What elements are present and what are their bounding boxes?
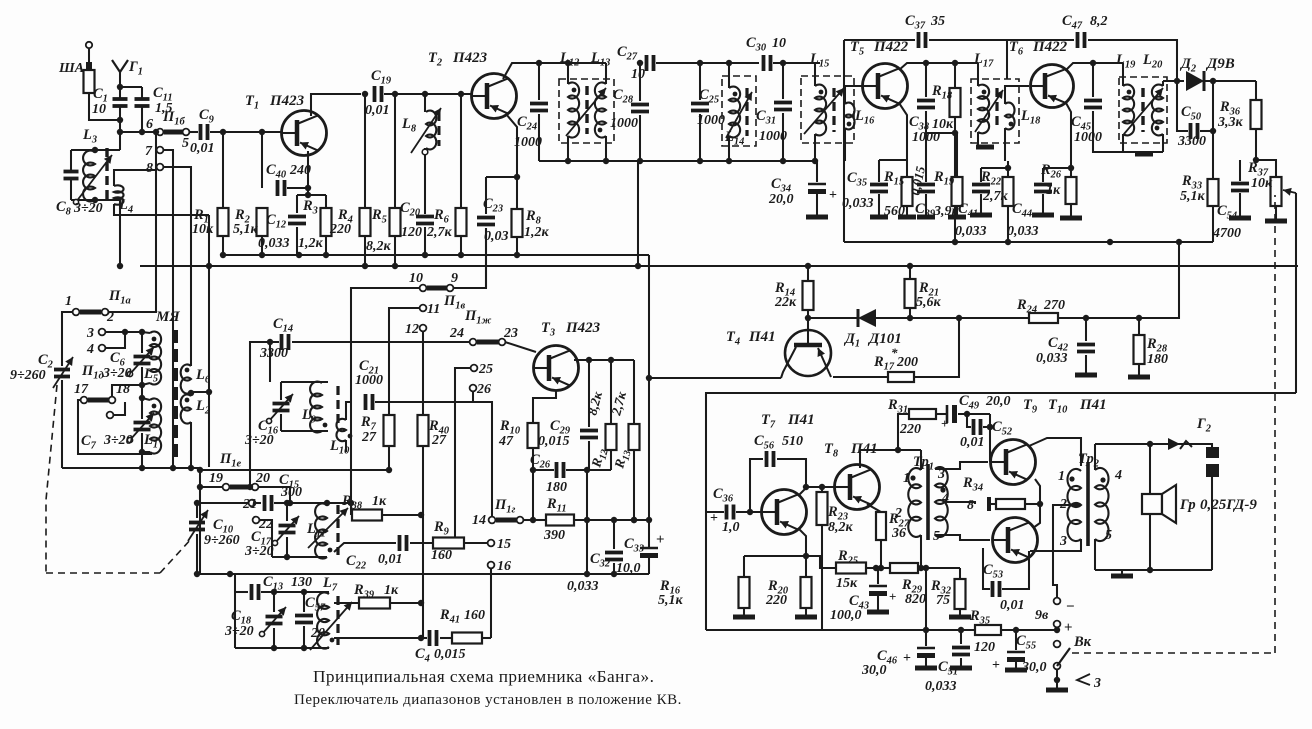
switch П1ж contacts 24-23 [470, 339, 506, 346]
switch П1а contacts 1-2 [73, 309, 109, 316]
svg-text:120: 120 [974, 640, 995, 655]
svg-text:R19: R19 [933, 169, 955, 188]
svg-text:26: 26 [476, 382, 491, 397]
antenna Г1 [112, 60, 128, 90]
resistor R8 [512, 209, 523, 258]
svg-text:−: − [1066, 599, 1075, 615]
label 23 [503, 326, 518, 341]
label R4 220 [329, 207, 353, 237]
label C23 [483, 196, 503, 215]
wire T7 emitter [798, 528, 806, 556]
svg-text:14: 14 [472, 513, 486, 528]
svg-text:L17: L17 [973, 51, 994, 70]
label R31 220 [887, 397, 921, 437]
capacitor C42 [1075, 318, 1097, 375]
label C56 510 [754, 433, 803, 452]
svg-text:C57: C57 [305, 595, 326, 614]
label 3÷20 (C7) [103, 433, 133, 448]
label L14 [724, 129, 744, 148]
wire T8 emitter [867, 504, 881, 512]
svg-text:10: 10 [92, 102, 106, 117]
caption line 2 [294, 692, 682, 708]
capacitor C49 [936, 405, 990, 423]
label C12 [266, 212, 286, 231]
svg-text:R35: R35 [969, 608, 990, 627]
svg-text:510: 510 [782, 434, 803, 449]
coil L17 [976, 63, 994, 147]
resistor R22 [1003, 161, 1014, 245]
label C32 0,033 [567, 551, 610, 594]
svg-text:1: 1 [1058, 469, 1065, 484]
label L10 [329, 438, 350, 457]
capacitor C1 [113, 87, 128, 150]
svg-text:L14: L14 [724, 129, 744, 148]
label 18 [116, 382, 130, 397]
svg-text:200: 200 [896, 355, 918, 370]
transformer Тр1 core [926, 464, 930, 540]
label ША [58, 61, 84, 76]
svg-text:1,2к: 1,2к [298, 236, 324, 251]
svg-text:L13: L13 [590, 50, 610, 69]
label C50 3300 [1177, 104, 1206, 149]
wire 20 to C14 [247, 484, 293, 506]
label C49 20,0 [941, 393, 1011, 431]
svg-text:Г1: Г1 [128, 59, 143, 78]
label L4 [118, 197, 133, 216]
contact 21 [197, 497, 257, 512]
label C16 [258, 418, 279, 437]
coil L5 [142, 331, 161, 385]
svg-text:C41: C41 [958, 201, 978, 220]
svg-text:5,1к: 5,1к [658, 593, 684, 608]
svg-text:Тр1: Тр1 [913, 454, 934, 473]
svg-text:C52: C52 [992, 419, 1012, 438]
wire T1 emitter [297, 151, 326, 198]
label R38 1к [341, 493, 387, 512]
transistor T3 [534, 346, 579, 391]
svg-text:R3: R3 [302, 198, 318, 217]
svg-text:П41: П41 [748, 329, 776, 345]
label R15 560 [883, 169, 905, 219]
label C42 0,033 [1036, 335, 1068, 366]
svg-text:П1д: П1д [81, 363, 104, 382]
label C52 0,01 [960, 419, 1012, 450]
svg-text:+: + [656, 532, 665, 548]
label R27 36 [888, 511, 910, 541]
svg-text:22к: 22к [774, 295, 797, 310]
capacitor C54 [1229, 160, 1251, 218]
label 14 [472, 513, 486, 528]
switch П1в contacts 10-9 [420, 285, 454, 292]
core L7 [310, 596, 352, 650]
svg-text:160: 160 [431, 548, 452, 563]
svg-text:Т6: Т6 [1009, 39, 1024, 58]
svg-text:0,033: 0,033 [258, 236, 290, 251]
label C43 100,0 [830, 589, 896, 623]
svg-text:1000: 1000 [355, 373, 383, 388]
coil L4 [114, 170, 209, 215]
svg-text:8,2: 8,2 [1090, 14, 1108, 29]
svg-text:9: 9 [451, 271, 458, 286]
svg-text:L2: L2 [195, 398, 210, 417]
svg-text:R13: R13 [611, 448, 634, 472]
label П1б [162, 109, 186, 128]
label C34 20,0 [768, 176, 837, 207]
wire 10 to L11 [348, 288, 420, 515]
svg-text:3: 3 [1093, 676, 1101, 691]
label R17 200 [873, 345, 918, 373]
svg-text:180: 180 [1147, 352, 1168, 367]
label П1г [494, 497, 516, 516]
capacitor C26 [533, 462, 611, 478]
coil L10 [336, 402, 352, 452]
svg-text:L18: L18 [1020, 108, 1041, 127]
svg-text:L19: L19 [1115, 52, 1136, 71]
resistor R39 [334, 598, 421, 609]
label C39 [915, 201, 936, 220]
capacitor C11 [120, 87, 150, 135]
resistor R16 [733, 556, 755, 617]
svg-text:3÷20: 3÷20 [73, 201, 103, 216]
svg-text:Г2: Г2 [1196, 416, 1211, 435]
svg-text:47: 47 [498, 434, 514, 449]
tank L9 box [281, 382, 328, 431]
wire T6 collector [1066, 60, 1123, 70]
resistor R13 [629, 360, 640, 523]
switch П1д contacts 17-18 [81, 397, 116, 404]
label 3÷20 (C17) [244, 544, 274, 559]
label R8 1,2к [524, 208, 550, 240]
label R29 820 [901, 577, 926, 607]
svg-text:МЯ: МЯ [155, 309, 180, 325]
label L19 [1115, 52, 1136, 71]
capacitor C38 [917, 63, 958, 136]
svg-text:+: + [1064, 620, 1073, 636]
svg-text:300: 300 [280, 485, 302, 500]
svg-text:5: 5 [933, 529, 940, 544]
svg-text:30,0: 30,0 [861, 663, 887, 678]
wire T5 collector [899, 60, 978, 70]
svg-text:35: 35 [930, 14, 945, 29]
label C18 [231, 608, 252, 627]
bus supply [140, 263, 1298, 269]
svg-text:0,033: 0,033 [955, 224, 987, 239]
label C4 0,015 [415, 646, 466, 665]
svg-text:220: 220 [329, 222, 351, 237]
capacitor C4 [334, 630, 452, 646]
label 19 [209, 471, 223, 486]
capacitor C44 [1032, 168, 1071, 215]
wire T8 collector [860, 450, 921, 468]
coil L3 [71, 147, 123, 269]
label 6 [146, 117, 153, 132]
label 9÷260 (C10) [204, 533, 240, 548]
svg-text:0,033: 0,033 [567, 579, 599, 594]
svg-text:П1е: П1е [219, 451, 242, 470]
wire L2 right drop [206, 215, 212, 467]
capacitor C2 (tuning) [53, 312, 73, 468]
svg-text:3÷20: 3÷20 [244, 544, 274, 559]
label Тр1 [913, 454, 934, 473]
svg-text:L15: L15 [809, 51, 829, 70]
label C40 240 [266, 162, 311, 181]
label 20 (C57) [310, 626, 325, 641]
svg-text:L4: L4 [118, 197, 133, 216]
svg-text:П423: П423 [565, 320, 601, 336]
svg-text:C35: C35 [847, 170, 867, 189]
wire T7 collector [798, 484, 835, 496]
svg-text:R11: R11 [546, 496, 567, 515]
label 0,01 (C19) [365, 103, 390, 118]
transistor T6 [1031, 65, 1074, 108]
svg-text:1000: 1000 [514, 135, 542, 150]
label 2,7к rotated [608, 389, 629, 418]
label 0,01 [190, 141, 215, 156]
transformer Тр2 primary [1067, 469, 1081, 541]
label Д1 Д101 [843, 331, 902, 350]
resistor R41 [452, 633, 491, 644]
svg-text:1,2к: 1,2к [524, 225, 550, 240]
resistor R4 [360, 94, 371, 269]
label 0,03 (C23) [484, 229, 509, 244]
IF transformer box L12 L13 [559, 79, 614, 143]
svg-text:R24: R24 [1016, 297, 1037, 316]
coil L9 [310, 382, 322, 433]
resistor R36 [1251, 81, 1262, 160]
svg-text:П1а: П1а [108, 288, 131, 307]
contact 26 [470, 382, 491, 402]
label C28 1000 [610, 87, 638, 131]
label 0,25ГД-9 [1200, 497, 1257, 513]
svg-text:1000: 1000 [610, 116, 638, 131]
coil L16 [845, 86, 862, 161]
label C20 120 [400, 200, 422, 240]
wire T1 collector [311, 94, 361, 116]
contact 8 [146, 161, 191, 366]
label L12 [559, 50, 579, 69]
tuning cap C10 [188, 500, 208, 577]
svg-text:C24: C24 [517, 114, 537, 133]
label L20 [1142, 52, 1163, 71]
coil L15 [815, 63, 826, 161]
label C24 1000 [514, 114, 542, 150]
label L6 [195, 367, 211, 386]
label C22 0,01 [346, 552, 403, 572]
svg-text:+: + [941, 416, 948, 431]
label C38 1000 [909, 114, 940, 145]
arrow of L3 tuning [73, 155, 112, 205]
resistor R33 [1208, 179, 1219, 242]
contact spare П1д [107, 402, 125, 418]
svg-text:T9: T9 [1023, 397, 1038, 416]
svg-text:220: 220 [899, 422, 921, 437]
antenna jack ША [84, 42, 121, 120]
resistor R27 [876, 512, 886, 571]
label L9 [301, 407, 327, 427]
resistor R2 [257, 208, 268, 258]
label 3÷20 (C18) [224, 624, 254, 639]
capacitor C9 [189, 124, 281, 140]
coil L18 [1005, 86, 1029, 161]
svg-text:3÷20: 3÷20 [244, 433, 274, 448]
label L11 [306, 521, 326, 540]
capacitor C33 [640, 548, 658, 574]
svg-text:390: 390 [543, 528, 565, 543]
battery terminals 9в [1054, 598, 1061, 630]
resistor R5 [390, 94, 401, 269]
capacitor C45 [1084, 63, 1123, 152]
label C31 1000 [756, 108, 787, 144]
wire L11 top [290, 500, 351, 506]
resistor R11 [533, 515, 649, 526]
svg-text:C36: C36 [713, 486, 734, 505]
capacitor C36 [706, 505, 762, 520]
label C53 0,01 [983, 562, 1025, 613]
resistor R40 [418, 415, 429, 641]
speaker Гр [1142, 444, 1176, 570]
label П1е [219, 451, 242, 470]
label R21 5,6к [916, 280, 942, 310]
svg-text:30,0: 30,0 [1021, 660, 1047, 675]
svg-text:20,0: 20,0 [768, 192, 794, 207]
transformer Тр1 primary [908, 450, 924, 571]
svg-text:R41: R41 [439, 607, 460, 626]
label T2 П423 [428, 50, 488, 69]
contact 15 [488, 537, 511, 552]
svg-text:0,01: 0,01 [190, 141, 215, 156]
label 9в − + [1035, 599, 1075, 636]
capacitor C12 [288, 195, 306, 258]
svg-text:10: 10 [631, 67, 645, 82]
svg-text:3÷20: 3÷20 [224, 624, 254, 639]
svg-text:1: 1 [903, 471, 910, 486]
bus front ground [197, 571, 649, 577]
resistor R29 [881, 563, 960, 573]
svg-text:R25: R25 [837, 548, 858, 567]
label 0,015 rotated (C39) [907, 164, 928, 196]
capacitor C40 [262, 132, 311, 196]
ground of L19 L20 [1123, 152, 1163, 154]
label C47 8,2 [1062, 13, 1108, 32]
label C11 1,5 [153, 85, 173, 116]
resistor R12 [606, 357, 617, 470]
svg-text:27: 27 [431, 433, 447, 448]
coil L19 [1123, 63, 1134, 152]
svg-text:0,01: 0,01 [960, 435, 985, 450]
label R24 270 [1016, 297, 1065, 316]
coil L13 [595, 63, 606, 161]
wire 24 left / C14 [292, 341, 470, 343]
label C41 0,033 [955, 201, 987, 239]
mech link dashes (volume) [1072, 195, 1275, 653]
transistor T1 [282, 111, 327, 156]
label МЯ [155, 309, 180, 325]
svg-text:3÷20: 3÷20 [103, 433, 133, 448]
svg-text:4: 4 [86, 342, 94, 357]
label C45 1000 [1071, 114, 1102, 145]
resistor R23 [817, 487, 828, 630]
svg-text:1000: 1000 [697, 113, 725, 128]
svg-text:C56: C56 [754, 433, 775, 452]
capacitor C32 [605, 520, 623, 577]
svg-text:C7: C7 [81, 433, 97, 452]
label Гр [1179, 497, 1196, 513]
wire T3 collector [574, 359, 634, 361]
capacitor C19 [362, 86, 471, 102]
label C26 180 [530, 452, 567, 495]
label C14 3300 [259, 316, 293, 361]
label R2 5,1к [233, 207, 259, 237]
wire 23 to T3 base [505, 342, 536, 352]
label R6 2,7к [426, 207, 453, 240]
label R22 2,7к [980, 169, 1009, 204]
svg-text:C37: C37 [905, 13, 926, 32]
svg-text:+: + [903, 651, 911, 666]
capacitor C50 [1174, 78, 1216, 179]
label C13 130 [263, 574, 312, 593]
trimmer C7 [127, 395, 154, 455]
label C29 0,015 [538, 418, 571, 449]
svg-text:T2: T2 [428, 50, 442, 69]
capacitor C29 [580, 357, 598, 473]
label П1а [108, 288, 131, 307]
label Д2 Д9В [1179, 56, 1235, 75]
resistor R32 [949, 568, 971, 617]
svg-text:+: + [992, 658, 1000, 673]
svg-text:C54: C54 [1217, 203, 1237, 222]
label 1 [65, 294, 72, 309]
wire R28 node up [1139, 242, 1179, 318]
svg-text:9в: 9в [1035, 608, 1049, 623]
svg-text:820: 820 [905, 592, 926, 607]
wire T2 emitter [486, 114, 520, 209]
label T3 П423 [541, 320, 601, 339]
label C51 0,033 [925, 659, 958, 694]
svg-text:C53: C53 [983, 562, 1003, 581]
capacitor C31 [774, 63, 792, 161]
capacitor C15 [255, 495, 290, 511]
svg-text:R15: R15 [883, 169, 904, 188]
transistor T9 [991, 440, 1036, 485]
label C7 [81, 433, 97, 452]
switch П1е contacts 19-20 [223, 484, 259, 491]
svg-text:8,2к: 8,2к [584, 389, 605, 417]
svg-text:2: 2 [894, 506, 902, 521]
svg-text:0,01: 0,01 [1000, 598, 1025, 613]
svg-text:9÷260: 9÷260 [10, 368, 46, 383]
svg-text:180: 180 [546, 480, 567, 495]
svg-text:5,1к: 5,1к [1180, 189, 1206, 204]
transistor T8 [835, 465, 880, 510]
svg-text:C27: C27 [617, 44, 638, 63]
label L3 [82, 127, 97, 146]
wire T9 collector [1029, 438, 1081, 466]
transistor T10 [993, 518, 1038, 563]
wire T3 emitter [533, 390, 556, 423]
svg-text:П422: П422 [873, 39, 909, 55]
core L19/L20 [1124, 88, 1163, 134]
svg-text:C55: C55 [1016, 633, 1036, 652]
capacitor C13 [235, 574, 329, 600]
coil L20 [1152, 81, 1163, 152]
label C57 [305, 595, 326, 614]
svg-text:0,03: 0,03 [484, 229, 509, 244]
coil L2 [181, 390, 209, 471]
svg-text:560: 560 [884, 204, 905, 219]
svg-text:C50: C50 [1181, 104, 1202, 123]
trimmer C8 [64, 150, 79, 200]
label L13 [590, 50, 610, 69]
